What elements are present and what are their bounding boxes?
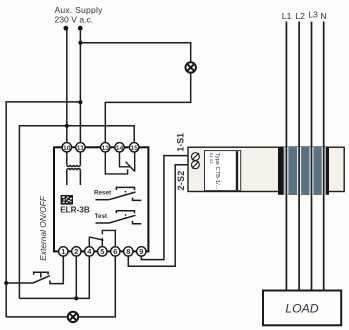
svg-text:1-S1: 1-S1 [175,133,185,152]
wire bottom lamp line (rail1 to terminal 6) [6,256,115,317]
terminal 10 [62,143,71,152]
terminal 1 [59,247,68,256]
svg-text:8: 8 [126,247,130,256]
node Aux Supply label [55,5,104,25]
node aux terminal dot 2 [78,26,83,31]
svg-text:Test: Test [95,213,108,220]
switch right contact [50,256,63,284]
pushbutton Reset [96,187,142,200]
junction dot terminal2 / lineB-bottom [74,296,78,300]
CT label box [205,151,241,191]
wire terminal 8 to CT S2 [128,165,188,266]
svg-text:N: N [320,11,326,21]
svg-text:2-S2: 2-S2 [176,170,186,190]
svg-text:6: 6 [113,247,117,256]
switch T-handle [34,272,49,277]
svg-text:15: 15 [130,145,138,152]
terminal 6 [111,247,120,256]
svg-text:230 V a.c.: 230 V a.c. [55,15,94,25]
pushbutton Test [96,211,142,224]
svg-text:11: 11 [77,145,84,152]
wire L1 [285,22,287,291]
junction dot on aux2 top [78,41,82,45]
svg-text:S1 S2: S1 S2 [209,153,214,165]
terminal 15 [130,143,139,152]
junction dot rail1 / switch [4,281,8,285]
terminal 2 [72,247,81,256]
CT label inner bar [236,151,238,190]
svg-text:L1: L1 [282,11,292,21]
relay contact bridge to 6 [102,230,115,246]
CT screw terminal S1 [192,153,200,161]
svg-text:ELR-3B: ELR-3B [60,205,90,214]
wire lamp return to terminal 13 [105,73,190,143]
CT block body [188,147,344,191]
svg-text:L2: L2 [295,11,305,21]
wire lamp top feed [80,43,190,63]
wire line A (left rail 1 to aux2) [6,102,80,317]
terminal 8 [124,247,133,256]
svg-text:13: 13 [102,145,110,152]
device ELR-3B box [54,147,148,251]
terminal 9 [137,247,146,256]
terminal 5 [98,247,107,256]
svg-text:14: 14 [116,145,124,152]
terminal 13 [101,143,110,152]
switch S external on/off blade [33,276,50,283]
svg-text:Aux. Supply: Aux. Supply [55,5,104,15]
terminal 4 [85,247,94,256]
lamp H1 top indicator [186,62,196,72]
CT teal window [283,147,324,195]
relay contact 13-14-15 [105,152,134,174]
CT line halos [286,147,323,195]
node L1 L2 L3 N labels [282,9,327,21]
svg-text:5: 5 [100,247,104,256]
lamp H2 bottom indicator [68,312,78,322]
svg-text:Reset: Reset [94,190,112,197]
wire terminal 9 to CT S1 [141,156,188,260]
wire switch left lead [6,282,33,284]
wire aux line 1 to terminal 10 [66,28,68,146]
svg-text:1: 1 [61,247,65,256]
transformer T1 primary leads [67,152,81,185]
relay contact 4-5 [89,230,115,246]
wire L2 [298,22,300,291]
LOAD box [263,291,341,326]
transformer T1 primary winding [67,165,81,167]
wire N [323,22,325,291]
CT dark band [278,147,329,195]
svg-text:External ON/OFF: External ON/OFF [38,195,48,261]
terminal 14 [115,143,124,152]
wire terminal 2 down [75,256,77,298]
svg-text:9: 9 [139,247,143,256]
svg-text:10: 10 [63,145,71,152]
logo mark [61,195,73,205]
junction dot aux2 / line A [78,100,82,104]
svg-text:LOAD: LOAD [285,302,318,316]
svg-text:2: 2 [74,247,78,256]
transformer T1 secondary leads [66,170,68,185]
wire bottom link to terminal 4 [19,256,89,298]
CT screw terminal S2 [192,161,200,169]
wire aux line 2 to terminal 11 [79,28,81,146]
wire line B (left rail 2 to aux1 and terminal 15) [19,126,134,299]
svg-text:L3: L3 [308,9,318,19]
terminal 11 [76,143,85,152]
transformer T1 secondary winding [67,169,81,171]
wire L3 [311,22,313,291]
junction dot aux1 / line B [65,124,69,128]
node aux terminal dot 1 [64,26,69,31]
